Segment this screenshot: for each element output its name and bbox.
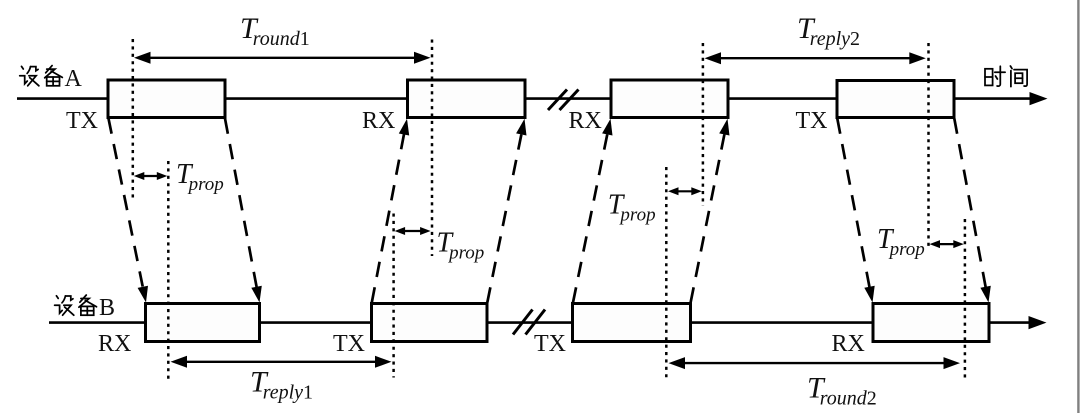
label 时间 (time) — [985, 66, 1027, 87]
pulse box A1 (TX of device A) — [108, 80, 225, 118]
dashed signal edge A4->B4 (leading) — [837, 119, 874, 303]
arrow T_prop3 — [668, 187, 702, 195]
dotted marker: end of T_prop4 / end of T_round2 — [964, 219, 967, 381]
arrow T_round2 — [669, 357, 961, 369]
dotted marker: start of T_reply2 / T_prop3 — [702, 43, 705, 206]
svg-text:TX: TX — [66, 108, 98, 134]
dashed signal edge B2->A2 (trailing) — [487, 119, 526, 303]
dashed signal edge A1->B1 (leading) — [109, 119, 149, 303]
page border line — [1077, 0, 1079, 413]
arrow T_prop2 — [395, 227, 431, 235]
break marks on timeline B — [513, 310, 545, 335]
break marks on timeline A — [548, 90, 579, 111]
label 设备B (device B) — [55, 295, 115, 321]
dotted marker: end of T_reply2 / start of T_prop4 — [927, 43, 930, 250]
arrow T_prop4 — [930, 240, 964, 248]
pulse box A2 (RX of device A) — [408, 80, 526, 118]
dotted marker: end of T_prop3 / start of T_round2 — [665, 167, 668, 380]
svg-text:RX: RX — [362, 108, 395, 134]
svg-text:RX: RX — [832, 331, 865, 357]
pulse box B2 (TX of device B) — [372, 304, 488, 342]
arrow T_reply2 — [705, 52, 926, 64]
device B timeline — [49, 316, 1047, 329]
pulse box B3 (TX of device B) — [573, 304, 691, 342]
dotted marker: start of T_prop2 / end of T_reply1 — [392, 214, 395, 378]
arrow T_prop1 — [134, 172, 168, 180]
svg-text:RX: RX — [98, 331, 131, 357]
svg-text:TX: TX — [333, 331, 365, 357]
svg-text:A: A — [65, 66, 83, 92]
label 设备A (device A) — [20, 66, 83, 92]
dashed signal edge A4->B4 (trailing) — [954, 119, 991, 303]
dotted marker: end of T_prop1 / start of T_reply1 — [167, 161, 170, 381]
dashed signal edge A1->B1 (trailing) — [225, 119, 262, 303]
dotted marker: start of T_round1 / T_prop1 — [132, 39, 135, 200]
pulse box A3 (RX of device A) — [611, 80, 728, 118]
dashed signal edge B3->A3 (leading) — [573, 119, 613, 303]
svg-text:RX: RX — [569, 108, 602, 134]
pulse box B4 (RX of device B) — [873, 304, 989, 342]
pulse box B1 (RX of device B) — [146, 304, 260, 342]
svg-text:TX: TX — [534, 331, 566, 357]
pulse box A4 (TX of device A) — [837, 81, 954, 118]
dashed signal edge B3->A3 (trailing) — [691, 119, 730, 303]
dotted marker: end of T_round1 / T_prop2 — [431, 40, 434, 257]
arrow T_reply1 — [171, 356, 392, 368]
dashed signal edge B2->A2 (leading) — [372, 119, 409, 303]
device A timeline — [17, 92, 1048, 105]
svg-text:B: B — [99, 295, 115, 321]
svg-text:TX: TX — [796, 108, 828, 134]
arrow T_round1 — [134, 52, 431, 64]
